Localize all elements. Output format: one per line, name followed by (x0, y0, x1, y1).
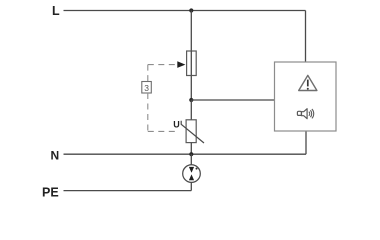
spark gap circle (183, 165, 201, 183)
arrow of thermal disconnector (177, 61, 185, 68)
svg-text:PE: PE (42, 185, 59, 199)
node junction on N (189, 152, 193, 156)
wire PE horizontal (64, 190, 192, 192)
speaker wave 2 (310, 110, 311, 117)
wire spark gap to PE (190, 182, 192, 190)
speaker wave 3 (312, 109, 314, 118)
svg-text:N: N (51, 148, 60, 162)
wire mid to signalling box (191, 99, 274, 101)
varistor diagonal with stub (181, 121, 204, 143)
wire N horizontal (64, 153, 307, 155)
warning triangle icon (299, 75, 317, 90)
speaker wave 1 (308, 112, 311, 116)
spark gap gas dot (196, 168, 198, 170)
svg-text:L: L (52, 4, 60, 18)
monitoring box 3 (142, 82, 152, 94)
fuse / disconnect element (187, 51, 197, 76)
wire L horizontal (64, 10, 306, 12)
wire N up to box bottom (305, 131, 307, 154)
wire through fuse (190, 51, 192, 76)
wire L drop to box (305, 11, 307, 63)
wire N to spark gap (190, 154, 192, 165)
svg-text:U: U (173, 120, 180, 130)
dashed link vertical lower (147, 93, 149, 131)
signalling box U2 (275, 62, 337, 131)
warning exclamation dot (307, 88, 309, 90)
node junction mid (189, 98, 193, 102)
node junction on L (189, 8, 193, 12)
speaker horn (302, 109, 308, 119)
speaker magnet ring (297, 111, 301, 115)
wire varistor to N (190, 143, 192, 155)
warning exclamation bar (307, 80, 309, 87)
spark gap electrode bottom (189, 174, 194, 180)
wire fuse to varistor (190, 100, 192, 120)
dashed link horizontal lower (148, 130, 178, 132)
wire main vertical branch (190, 11, 192, 101)
dashed link horizontal top (148, 64, 177, 66)
spark gap electrode top (189, 167, 194, 173)
varistor body (186, 120, 196, 143)
dashed link vertical upper (147, 65, 149, 82)
svg-text:3: 3 (144, 83, 149, 93)
